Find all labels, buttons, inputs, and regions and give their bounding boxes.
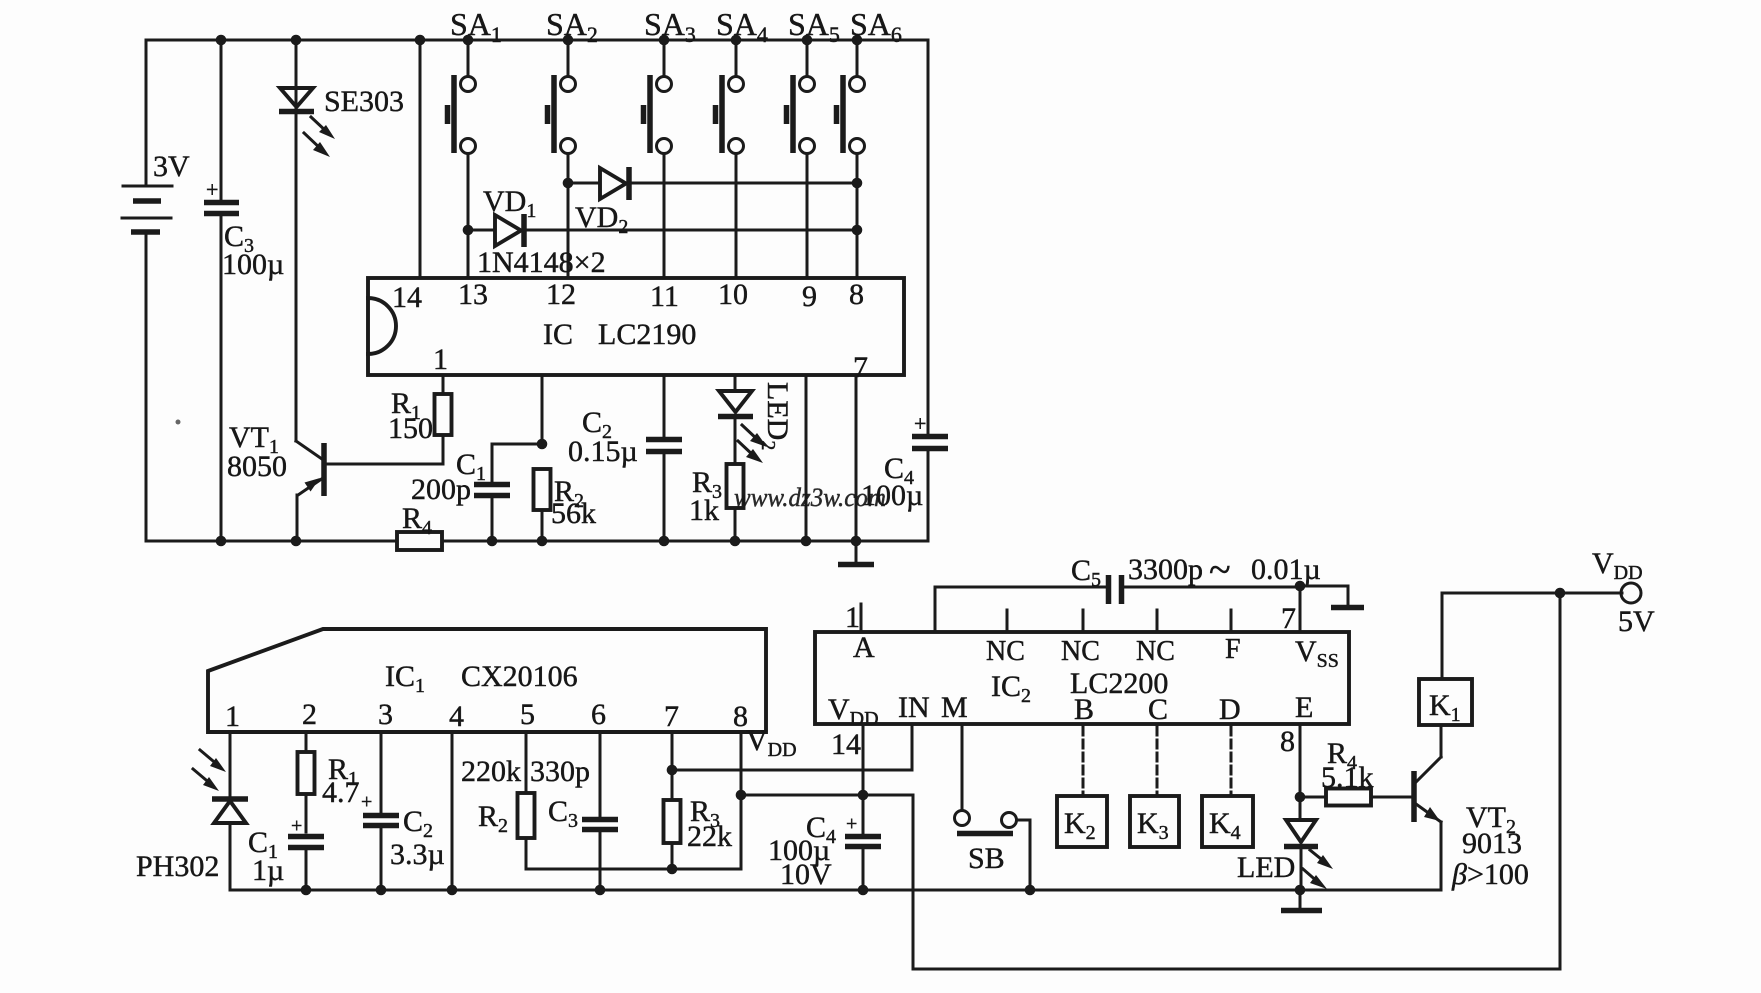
- junction dot VDD feed / right riser: [1555, 588, 1566, 599]
- svg-text:LED: LED: [1237, 851, 1295, 884]
- dashed wire pin B: [1082, 727, 1085, 793]
- wire pin 7 branch: [855, 375, 858, 541]
- svg-text:12: 12: [546, 278, 576, 311]
- svg-text:8: 8: [1280, 725, 1295, 758]
- capacitor C2 0.15u: [568, 375, 682, 541]
- svg-text:M: M: [941, 691, 968, 724]
- svg-text:1: 1: [845, 601, 860, 634]
- svg-text:NC: NC: [1061, 636, 1100, 667]
- relay K2: [1057, 796, 1107, 847]
- junction dot C3 / ground rail: [595, 885, 606, 896]
- svg-text:5.1k: 5.1k: [1321, 761, 1374, 794]
- svg-text:7: 7: [664, 700, 679, 733]
- svg-text:3: 3: [378, 698, 393, 731]
- wire pin 4 to ground rail: [451, 732, 454, 890]
- svg-text:LED2: LED2: [757, 382, 794, 450]
- svg-text:330p: 330p: [530, 755, 590, 788]
- pushbutton switch SA2: [546, 6, 598, 278]
- diode VD2 1N4148: [563, 167, 863, 238]
- diode VD1 1N4148: [463, 185, 863, 247]
- wire pin 7 VSS: [1299, 585, 1302, 632]
- pin 1 stub (A): [860, 604, 863, 632]
- relay K4: [1202, 796, 1253, 847]
- wire VDD riser to lower supply bus: [913, 795, 1560, 969]
- svg-text:www.dz3w.com: www.dz3w.com: [734, 483, 886, 512]
- wire right rail to C4: [927, 40, 930, 434]
- transistor VT2 9013: [1414, 725, 1529, 891]
- svg-text:+: +: [846, 813, 857, 835]
- dashed wire pin D: [1230, 727, 1233, 793]
- svg-text:14: 14: [831, 728, 861, 761]
- wire left branch (battery): [145, 40, 148, 541]
- svg-text:100µ: 100µ: [222, 248, 284, 281]
- wire pin 8 VDD branch: [740, 732, 743, 869]
- wire pin 14 branch: [862, 724, 865, 833]
- junction dot top rail / C3: [216, 35, 227, 46]
- svg-text:2: 2: [302, 698, 317, 731]
- svg-text:B: B: [1074, 693, 1094, 726]
- ground (top circuit): [838, 541, 874, 565]
- svg-text:0.15µ: 0.15µ: [568, 435, 638, 468]
- svg-text:4: 4: [449, 700, 464, 733]
- wire pin7 node to IC2 IN pin: [672, 724, 912, 770]
- svg-text:22k: 22k: [687, 820, 732, 853]
- svg-text:β>100: β>100: [1451, 858, 1529, 891]
- junction dot R2 / bottom rail: [537, 536, 548, 547]
- ground (lower circuit): [1281, 890, 1322, 911]
- svg-text:5V: 5V: [1618, 605, 1655, 638]
- svg-text:+: +: [914, 411, 926, 436]
- capacitor C3 330p (pin 6): [530, 732, 618, 890]
- resistor R2 220k (pin 5): [461, 732, 535, 869]
- capacitor C3 100u: [204, 177, 284, 281]
- resistor R3 22k (pin 7): [664, 732, 733, 874]
- svg-text:150: 150: [388, 412, 433, 445]
- IC LC2190 (encoder chip): [368, 278, 904, 384]
- ground (VSS): [1300, 586, 1364, 608]
- svg-text:220k: 220k: [461, 755, 521, 788]
- pushbutton switch SA4: [716, 6, 768, 278]
- terminal VDD 5V: [1592, 547, 1655, 638]
- resistor R1 150 (pin 1): [388, 375, 452, 445]
- svg-text:4.7: 4.7: [322, 776, 360, 809]
- svg-text:C: C: [1148, 693, 1168, 726]
- wire R2/R3 bottom bus: [526, 868, 741, 871]
- junction dot C1 / ground rail: [301, 885, 312, 896]
- svg-text:5: 5: [520, 698, 535, 731]
- junction dot C5 / VSS: [1295, 581, 1306, 592]
- capacitor C1 1u (electrolytic): [248, 815, 324, 890]
- resistor R3 1k: [689, 464, 744, 541]
- junction dot C4 / ground rail: [858, 885, 869, 896]
- wire pin14 branch to top rail: [419, 40, 422, 278]
- capacitor C2 3.3u (pin 3): [361, 732, 445, 890]
- svg-text:9: 9: [802, 280, 817, 313]
- dashed wire pin C: [1156, 727, 1159, 793]
- pushbutton switch SA3: [644, 6, 696, 278]
- svg-text:1k: 1k: [689, 494, 719, 527]
- pushbutton switch SA5: [787, 6, 840, 278]
- LED SE303 (IR emitter diode): [279, 85, 404, 157]
- wire VDD bus to IC2 pin14: [741, 794, 913, 797]
- svg-text:14: 14: [392, 281, 422, 314]
- svg-text:56k: 56k: [551, 497, 596, 530]
- svg-text:D: D: [1219, 693, 1241, 726]
- junction dot C1 / bottom rail: [487, 536, 498, 547]
- resistor R4 (series in bottom rail): [397, 502, 442, 550]
- svg-text:1: 1: [225, 700, 240, 733]
- svg-text:~: ~: [1209, 547, 1231, 592]
- wire SE303 branch: [295, 40, 298, 441]
- junction dot: [801, 536, 812, 547]
- svg-text:3300p: 3300p: [1128, 553, 1203, 586]
- junction dot R3 / bottom rail: [730, 536, 741, 547]
- svg-text:IN: IN: [898, 691, 930, 724]
- pushbutton SB (M pin): [955, 724, 1031, 890]
- stray ink dot: [176, 420, 181, 425]
- junction dot C2 / ground rail: [376, 885, 387, 896]
- pin stub NC: [1006, 610, 1009, 632]
- IC2 LC2200 (decoder chip): [815, 601, 1349, 761]
- svg-text:1µ: 1µ: [252, 854, 284, 887]
- junction dot top rail / SE303: [291, 35, 302, 46]
- relay K3: [1130, 796, 1179, 847]
- junction dot SB / ground rail: [1025, 885, 1036, 896]
- wire right VDD riser: [1559, 593, 1562, 969]
- photodiode PH302: [136, 732, 248, 890]
- svg-text:NC: NC: [1136, 636, 1175, 667]
- svg-text:1: 1: [433, 343, 448, 376]
- relay K1: [1419, 593, 1472, 726]
- svg-text:11: 11: [650, 280, 679, 313]
- resistor R2 56k: [534, 469, 597, 541]
- svg-text:E: E: [1295, 691, 1313, 724]
- resistor R4 5.1k: [1300, 737, 1412, 806]
- svg-text:PH302: PH302: [136, 850, 219, 883]
- wire VDD top feed: [1442, 592, 1622, 595]
- svg-text:7: 7: [853, 351, 868, 384]
- svg-text:7: 7: [1281, 602, 1296, 635]
- capacitor C4 100u: [861, 411, 948, 541]
- svg-text:3V: 3V: [153, 150, 190, 183]
- resistor R1 4.7 (pin 2): [298, 732, 360, 832]
- svg-text:8050: 8050: [227, 450, 287, 483]
- wire unlabeled IC pin to bottom rail: [805, 375, 808, 541]
- IC1 CX20106 (IR receiver amp): [208, 629, 766, 733]
- junction node C1/R2: [537, 439, 548, 450]
- svg-text:+: +: [206, 177, 218, 202]
- wire top rail: [146, 39, 928, 42]
- wire pin 8 (E) branch: [1299, 724, 1302, 797]
- transistor VT1 8050: [227, 421, 443, 541]
- pin stub NC: [1156, 610, 1159, 632]
- svg-text:SB: SB: [968, 842, 1005, 875]
- svg-text:CX20106: CX20106: [461, 660, 578, 693]
- junction dot pin7 / bottom rail: [851, 536, 862, 547]
- wire bottom ground rail (lower circuit): [230, 889, 1441, 892]
- junction dot VDD bus / pin14: [858, 790, 869, 801]
- svg-text:+: +: [361, 791, 372, 813]
- svg-text:IC: IC: [543, 318, 573, 351]
- pin stub F: [1230, 610, 1233, 632]
- junction dot LED / ground rail: [1295, 885, 1306, 896]
- svg-text:6: 6: [591, 698, 606, 731]
- svg-text:10V: 10V: [780, 858, 832, 891]
- battery 3V: [122, 150, 190, 232]
- svg-text:9013: 9013: [1462, 827, 1522, 860]
- capacitor C1 200p: [411, 444, 542, 541]
- svg-text:13: 13: [458, 278, 488, 311]
- junction dot E node: [1295, 792, 1306, 803]
- svg-text:NC: NC: [986, 636, 1025, 667]
- svg-text:10: 10: [718, 278, 748, 311]
- wire C3 branch: [220, 40, 223, 541]
- svg-text:0.01µ: 0.01µ: [1251, 553, 1321, 586]
- capacitor C4 100u 10V (electrolytic): [768, 811, 881, 891]
- svg-text:8: 8: [849, 278, 864, 311]
- junction dot VT1 emitter / bottom rail: [291, 536, 302, 547]
- junction dot pin8 / VDD bus: [736, 790, 747, 801]
- svg-text:A: A: [853, 631, 875, 664]
- svg-text:LC2190: LC2190: [598, 318, 696, 351]
- svg-text:1N4148×2: 1N4148×2: [477, 246, 606, 279]
- junction dot C2 / bottom rail: [659, 536, 670, 547]
- svg-text:+: +: [291, 815, 302, 837]
- pushbutton switch SA1: [448, 6, 502, 278]
- junction dot pin4 / ground rail: [447, 885, 458, 896]
- capacitor C5 3300p~0.01u: [935, 547, 1321, 632]
- LED2 indicator diode: [718, 375, 794, 464]
- svg-text:SE303: SE303: [324, 85, 404, 118]
- pin stub NC: [1082, 610, 1085, 632]
- wire IC pin to C1/R2 node: [541, 375, 544, 444]
- junction dot pin14 / top rail: [415, 35, 426, 46]
- svg-text:3.3µ: 3.3µ: [390, 838, 445, 871]
- pushbutton switch SA6: [837, 6, 902, 278]
- wire bottom rail (top circuit): [146, 540, 928, 543]
- LED status diode (E node): [1237, 797, 1333, 890]
- junction dot C3 / bottom rail: [216, 536, 227, 547]
- svg-text:F: F: [1225, 634, 1241, 665]
